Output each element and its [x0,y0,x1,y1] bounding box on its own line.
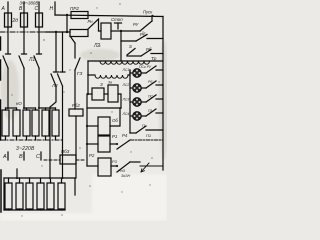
svg-text:П1: П1 [146,133,151,138]
svg-text:РпЗ: РпЗ [118,169,126,173]
svg-text:Пуск: Пуск [143,10,153,15]
svg-text:Р2: Р2 [89,153,95,158]
fuse phase A [5,13,12,27]
contact Р3 [111,165,116,167]
svg-text:ПСк РУ: ПСк РУ [139,65,152,69]
bank2 bottom bus [4,209,65,211]
svg-text:Р1: Р1 [112,134,118,139]
bank2 feed stub [16,169,18,178]
boundary dash-dot line [0,31,46,33]
svg-text:Зв: Зв [108,81,112,85]
box Зв [104,93,108,95]
junction [66,31,68,33]
svg-text:С: С [35,6,39,12]
fuse ПР1 [70,30,88,37]
wire N rail [55,15,163,17]
wire phase B [23,27,25,54]
svg-text:Рн: Рн [88,19,94,24]
wire to coil [99,30,102,32]
wire y108 [87,107,121,109]
bank1 bottom dash bus [1,139,62,141]
bank2 left frame [3,178,5,210]
svg-text:S: S [129,44,132,49]
transformer primary winding [100,61,150,64]
svg-text:ЛС4: ЛС4 [122,112,130,116]
wire phase A [7,27,9,54]
bank2 right vertical [74,178,76,195]
svg-text:Об: Об [112,118,118,123]
svg-text:нО: нО [16,101,22,106]
transformer secondary wire [88,74,95,76]
svg-text:Р4: Р4 [122,133,128,138]
svg-text:А: А [1,6,6,12]
junction [55,31,57,33]
fuse ПР2 [71,12,88,19]
svg-text:2д: 2д [12,18,19,24]
svg-text:Р3: Р3 [112,159,118,164]
transformer secondary winding [95,75,128,78]
svg-text:Н: Н [50,6,54,12]
svg-text:С: С [36,154,40,160]
junction dots bank2 [16,177,18,179]
tap ГЗ line [70,36,75,43]
svg-text:ПбЗ: ПбЗ [61,149,70,154]
contactor Л2 contact 1 [54,71,59,73]
svg-text:Рб2: Рб2 [72,103,80,108]
svg-text:3Ф~380В: 3Ф~380В [20,1,39,6]
wire phase C [38,27,40,54]
svg-text:Стоп: Стоп [111,17,123,22]
svg-text:ЛС1: ЛС1 [122,68,130,72]
wire N drop [54,2,56,15]
junction [66,14,68,16]
wire phase B top [23,2,25,13]
svg-text:ЗкЗН: ЗкЗН [121,174,130,178]
bank1 bottom stubs [5,136,7,140]
heater bank 2 resistors [5,183,12,209]
junction after stop [120,30,122,32]
svg-text:В: В [19,154,23,160]
svg-text:ГЗ: ГЗ [77,71,82,76]
wire phase A top [7,2,9,13]
secondary to lamp bus [128,70,130,75]
wire down to second fuse [66,15,68,32]
fuse phase C [36,13,43,27]
arrow [141,163,149,172]
tap wire bank2 pole2 [62,32,64,72]
bank2 stubs top [8,178,10,183]
control tap wire [46,31,70,33]
svg-text:Л2: Л2 [51,83,58,88]
svg-text:ЛС3: ЛС3 [122,98,130,102]
fuse phase B [21,13,28,27]
svg-text:З: З [100,82,103,87]
vertical from stop junction [120,31,122,61]
dash wire to box [44,159,60,161]
svg-text:А: А [2,154,7,160]
bank2 top bus [4,177,75,179]
lamp bus [129,70,131,133]
svg-text:3~220В: 3~220В [16,146,35,152]
wire phase C top [38,2,40,13]
bus right edge [162,17,164,171]
left control bus [87,75,89,94]
svg-text:ПР2: ПР2 [70,6,79,11]
heater bank 1 resistors [2,110,9,136]
left bus down [86,94,88,166]
transformer left drop [87,61,89,75]
tap wire bank2 pole1 [55,32,57,72]
coil Л2 [101,23,111,39]
left edge artifacts [0,37,2,50]
svg-text:ЛС2: ЛС2 [122,83,130,87]
wire to holding contact [121,30,140,32]
transformer top wire [88,60,163,62]
wire coil to stop [111,30,121,32]
contactor Л2 contact 2 [60,71,65,73]
